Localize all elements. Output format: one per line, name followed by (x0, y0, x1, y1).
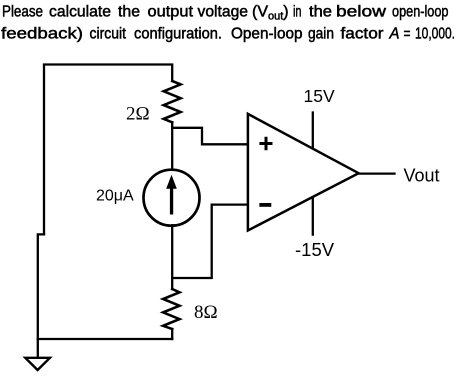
svg-text:feedback): feedback) (1, 26, 83, 43)
svg-text:the: the (118, 4, 140, 21)
svg-text:circuit: circuit (90, 26, 127, 43)
svg-text:open-loop: open-loop (392, 4, 449, 21)
svg-text:A: A (389, 26, 400, 43)
svg-text:gain: gain (308, 26, 334, 43)
svg-text:=: = (404, 26, 411, 43)
svg-text:output: output (148, 4, 194, 21)
svg-text:(V: (V (252, 4, 268, 21)
svg-text:Please: Please (2, 4, 43, 21)
svg-text:15V: 15V (304, 86, 335, 106)
svg-text:voltage: voltage (198, 4, 249, 21)
svg-text:-15V: -15V (295, 239, 335, 260)
svg-text:2Ω: 2Ω (126, 104, 150, 125)
svg-text:configuration.: configuration. (134, 26, 222, 43)
svg-text:the: the (309, 4, 332, 21)
svg-text:10,000.: 10,000. (415, 26, 455, 43)
svg-text:below: below (336, 4, 387, 21)
svg-text:Vout: Vout (404, 166, 440, 186)
svg-text:factor: factor (341, 26, 385, 43)
svg-text:calculate: calculate (49, 4, 111, 21)
svg-text:20μA: 20μA (96, 188, 134, 205)
svg-text:out: out (268, 11, 283, 23)
svg-text:8Ω: 8Ω (194, 302, 218, 323)
svg-text:Open-loop: Open-loop (231, 26, 303, 43)
svg-text:in: in (293, 4, 302, 21)
svg-text:): ) (283, 4, 288, 21)
